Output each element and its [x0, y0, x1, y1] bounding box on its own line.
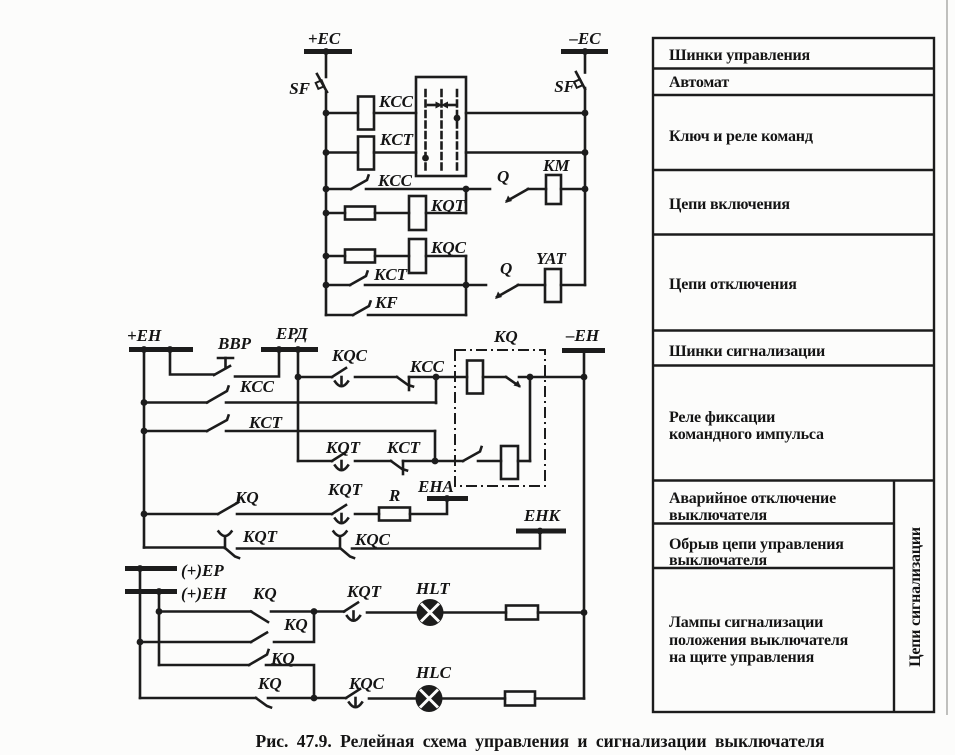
- wire +EC down to SF: [325, 52, 328, 78]
- contact KQ changeover lower blade: [251, 633, 267, 643]
- wire row2 left: [326, 151, 358, 154]
- svg-text:Автомат: Автомат: [669, 74, 729, 91]
- junction row5/row6/row7: [463, 282, 470, 289]
- resistor row5: [345, 250, 375, 263]
- junction changeover: [311, 608, 318, 615]
- wire row1 down to row2: [435, 377, 438, 403]
- contact KQ changeover upper blade: [251, 612, 268, 623]
- wire mid row4 left: [298, 460, 332, 463]
- wire coil2 to vertical: [518, 460, 530, 463]
- junction EP branch: [137, 639, 144, 646]
- svg-text:–EC: –EC: [568, 29, 601, 48]
- svg-text:выключателя: выключателя: [669, 552, 767, 569]
- wire row1 left: [326, 112, 358, 115]
- bus +EC: [304, 49, 352, 54]
- wire lamp row1 lower left: [140, 641, 251, 644]
- svg-text:Цепи отключения: Цепи отключения: [669, 276, 797, 293]
- junction on +EC bus: [323, 48, 330, 55]
- wire row1 key box to right bus: [466, 112, 585, 115]
- wire to lamp HLC: [369, 697, 416, 700]
- relay coil KCC: [358, 97, 374, 130]
- svg-text:EHK: EHK: [523, 506, 562, 525]
- wire row2 right down: [266, 665, 314, 698]
- bus +EH: [129, 347, 193, 352]
- wire mid row5 mid: [237, 513, 332, 516]
- svg-text:положения выключателя: положения выключателя: [669, 632, 849, 649]
- svg-text:Шинки управления: Шинки управления: [669, 47, 811, 64]
- svg-text:KQ: KQ: [234, 488, 259, 507]
- contact Q (row6): [495, 285, 518, 299]
- wire row3 down to row4: [434, 431, 437, 461]
- contactor coil KM: [546, 175, 561, 204]
- relay coil KCT: [358, 137, 374, 170]
- contact KCC (row2): [207, 387, 229, 403]
- svg-text:KQ: KQ: [257, 674, 282, 693]
- svg-text:KCT: KCT: [248, 413, 283, 432]
- table frame: [653, 38, 934, 712]
- junction EHK: [537, 528, 544, 535]
- wire resistor to right bus end: [535, 697, 584, 700]
- wire KQ internal vertical: [529, 377, 532, 461]
- resistor row4: [345, 207, 375, 220]
- contact KCT NC (row4): [391, 461, 407, 474]
- svg-text:Аварийное отключение: Аварийное отключение: [669, 490, 836, 507]
- svg-text:Ключ и реле команд: Ключ и реле команд: [669, 128, 813, 145]
- wire to coil 2: [478, 460, 501, 463]
- svg-text:ЕРД: ЕРД: [275, 324, 309, 343]
- junctions on ERD bus: [276, 346, 283, 353]
- relay coil KQC: [409, 239, 426, 273]
- wire -EC down to SF: [584, 52, 587, 73]
- wire EP vertical: [139, 569, 142, 699]
- wire row5 mid: [375, 255, 409, 258]
- lamp HLT: [417, 599, 444, 626]
- wire row6 to EHK: [352, 531, 540, 549]
- junctions on +EH bus: [141, 346, 148, 353]
- svg-text:(+)EH: (+)EH: [181, 584, 227, 603]
- wire mid row4 mid: [355, 460, 391, 463]
- wire mid row5 left: [144, 513, 218, 516]
- control key switch box SA: [416, 77, 466, 176]
- svg-text:KQC: KQC: [331, 346, 368, 365]
- svg-text:KQT: KQT: [327, 480, 363, 499]
- svg-text:Реле фиксации: Реле фиксации: [669, 409, 775, 426]
- wire ERD vertical: [297, 350, 300, 462]
- wire row7 left: [326, 314, 353, 317]
- contact KQC latched NC (row6): [334, 532, 355, 559]
- contact KCC NC (row1): [397, 377, 413, 390]
- wire YAT to right bus: [561, 284, 585, 287]
- wire mid row2 right: [226, 401, 436, 404]
- wire row2 key box to right bus: [466, 151, 585, 154]
- svg-text:KQT: KQT: [346, 582, 382, 601]
- contact inside KQ box (bottom): [463, 447, 482, 461]
- wire row3 to KM: [528, 188, 546, 191]
- wire resistor to right bus: [538, 611, 584, 614]
- junction row3/row4: [463, 186, 470, 193]
- wire lamp row3 left: [140, 697, 256, 700]
- wire row3 left: [326, 188, 351, 191]
- contact KQT latched (lamp row1): [344, 603, 360, 621]
- wire row5 right: [426, 255, 466, 258]
- wire changeover lower right up: [274, 612, 314, 643]
- terminal EHK: [516, 529, 566, 534]
- junction on -EC bus: [582, 48, 589, 55]
- svg-text:Обрыв цепи управления: Обрыв цепи управления: [669, 536, 844, 553]
- svg-text:командного импульса: командного импульса: [669, 426, 824, 443]
- svg-text:YAT: YAT: [536, 249, 567, 268]
- svg-text:R: R: [388, 486, 400, 505]
- wire mid row1 mid: [355, 376, 397, 379]
- svg-text:KQ: KQ: [493, 327, 518, 346]
- wire row7 up to row6: [465, 285, 468, 315]
- svg-text:KF: KF: [374, 293, 398, 312]
- push button BBP: [214, 358, 233, 375]
- wire lamp HLC to resistor: [443, 697, 506, 700]
- wire row4 up to row3: [465, 189, 468, 213]
- svg-text:KQ: KQ: [252, 584, 277, 603]
- trip coil YAT: [545, 269, 561, 302]
- contact Q (row3): [505, 189, 528, 203]
- wire coil1 to contact: [483, 376, 506, 379]
- wire mid row4 right: [403, 460, 463, 463]
- junction -EH row1: [581, 374, 588, 381]
- svg-text:HLT: HLT: [415, 579, 450, 598]
- wire row5 left: [326, 255, 345, 258]
- wire BBP to ERD: [235, 350, 279, 377]
- svg-text:KCT: KCT: [373, 265, 408, 284]
- wire row4 right: [426, 212, 466, 215]
- junction ERD row1: [295, 374, 302, 381]
- breaker SF (left): [316, 74, 327, 92]
- resistor R: [379, 508, 410, 521]
- contact inside KQ box (top): [506, 377, 521, 388]
- wire lamp row2 KQ left: [159, 664, 249, 667]
- wire mid row6 left: [144, 546, 224, 549]
- junction EH branch: [156, 608, 163, 615]
- wire contact to -EH: [519, 376, 584, 379]
- svg-text:Лампы сигнализации: Лампы сигнализации: [669, 614, 823, 631]
- svg-text:SF: SF: [289, 79, 310, 98]
- wire mid row6 mid: [237, 547, 339, 550]
- svg-text:SF: SF: [554, 77, 575, 96]
- wire EH vertical: [158, 592, 161, 666]
- junction EHA: [444, 495, 451, 502]
- svg-text:KCC: KCC: [377, 171, 413, 190]
- junction row1/row2: [433, 374, 440, 381]
- svg-text:KCC: KCC: [409, 357, 445, 376]
- junction lamp row3: [311, 695, 318, 702]
- svg-text:KQC: KQC: [348, 674, 385, 693]
- svg-text:KCC: KCC: [239, 377, 275, 396]
- svg-text:Q: Q: [500, 259, 512, 278]
- relay coil KQT: [409, 196, 426, 230]
- svg-text:Q: Q: [497, 167, 509, 186]
- bus -EH: [562, 348, 605, 353]
- contact KQ (row2): [249, 650, 269, 665]
- scan artifact right edge line: [946, 0, 948, 715]
- wire row3 mid: [268, 697, 346, 700]
- wire row6 middle: [365, 284, 486, 287]
- wire row6 left: [326, 284, 350, 287]
- svg-text:KQ: KQ: [283, 615, 308, 634]
- wire signal left bus: [143, 350, 146, 548]
- contact KQC latched (row1): [332, 368, 348, 386]
- terminal (+)EH: [125, 589, 177, 594]
- terminal (+)EP: [125, 566, 177, 571]
- svg-text:KM: KM: [542, 156, 570, 175]
- wire KM to right bus: [561, 188, 585, 191]
- contact KQT latched (row4): [332, 452, 348, 470]
- breaker SF (right): [574, 72, 585, 89]
- svg-text:Шинки сигнализации: Шинки сигнализации: [669, 343, 825, 360]
- svg-text:HLC: HLC: [415, 663, 452, 682]
- svg-text:KQC: KQC: [354, 530, 391, 549]
- contact KQ NC (lamp row3): [256, 698, 271, 708]
- wire signal right bus: [583, 351, 586, 699]
- junction dots right bus: [582, 110, 589, 117]
- contact KQC latched (lamp row3): [346, 689, 362, 707]
- resistor lamp row3: [505, 692, 535, 706]
- relay coil KQ winding 1: [467, 361, 483, 394]
- contact KCT (NO): [350, 272, 368, 286]
- wire BBP branch: [170, 350, 214, 375]
- junction -EH lamp row: [581, 609, 588, 616]
- svg-text:KQT: KQT: [242, 527, 278, 546]
- wire row1 to key box: [374, 112, 416, 115]
- svg-text:Рис. 47.9. Релейная схема упра: Рис. 47.9. Релейная схема управления и с…: [256, 731, 825, 751]
- terminal EHA: [427, 496, 468, 501]
- svg-text:KQT: KQT: [325, 438, 361, 457]
- bus -EC: [561, 49, 608, 54]
- relay KQ dashed box: [455, 350, 545, 486]
- wire row7 right: [368, 314, 466, 317]
- junction row3/row4 mid: [432, 458, 439, 465]
- wire mid row1 to KQ box: [409, 376, 467, 379]
- wire mid row1 left: [298, 376, 332, 379]
- svg-text:KQC: KQC: [430, 238, 467, 257]
- wire lamp HLT to resistor: [444, 611, 507, 614]
- svg-text:EHA: EHA: [417, 477, 454, 496]
- wire right control bus: [584, 88, 587, 285]
- svg-text:BBP: BBP: [217, 334, 252, 353]
- contact KQT latched (row5): [332, 505, 348, 523]
- svg-text:–EH: –EH: [565, 326, 600, 345]
- wire mid row2 left: [144, 401, 207, 404]
- junction KQ right: [527, 374, 534, 381]
- wire row5 to resistor: [355, 513, 379, 516]
- junction (+)EP: [137, 565, 144, 572]
- svg-text:Цепи сигнализации: Цепи сигнализации: [907, 527, 924, 667]
- wire mid row3 left: [144, 430, 207, 433]
- svg-text:+EH: +EH: [127, 326, 162, 345]
- wire row2 to key box: [374, 151, 416, 154]
- svg-text:выключателя: выключателя: [669, 507, 767, 524]
- contact KF: [353, 302, 371, 316]
- svg-text:на щите управления: на щите управления: [669, 649, 815, 666]
- junction dots left bus: [323, 110, 330, 117]
- svg-text:(+)EP: (+)EP: [181, 561, 224, 580]
- contact KQT latched NC (row6): [219, 532, 240, 559]
- wire to lamp HLT: [367, 611, 417, 614]
- contact KCC (NO): [351, 176, 369, 190]
- svg-text:+EC: +EC: [308, 29, 341, 48]
- bus ERD: [261, 347, 318, 352]
- wire row6 to YAT: [518, 284, 545, 287]
- relay coil KQ winding 2: [501, 446, 518, 479]
- dots signal left bus: [141, 399, 148, 406]
- svg-text:Цепи включения: Цепи включения: [669, 196, 790, 213]
- wire R to EHA: [410, 499, 447, 515]
- lamp HLC: [416, 685, 443, 712]
- wire row3 middle: [366, 188, 490, 191]
- svg-text:KCT: KCT: [379, 130, 414, 149]
- svg-text:KCC: KCC: [378, 92, 414, 111]
- wire changeover upper right: [271, 610, 344, 613]
- wire row5 down to row6: [465, 256, 468, 285]
- contact KCT (row3): [207, 416, 229, 432]
- wire lamp row1 upper left: [159, 610, 251, 613]
- wire row4 mid: [375, 212, 409, 215]
- resistor lamp row1: [506, 606, 538, 620]
- contact KQ (row5): [218, 498, 240, 514]
- junction (+)EH: [156, 588, 163, 595]
- wire row4 left: [326, 212, 345, 215]
- wire mid row3 right: [226, 430, 435, 433]
- wire left control bus: [325, 92, 328, 315]
- svg-text:KCT: KCT: [386, 438, 421, 457]
